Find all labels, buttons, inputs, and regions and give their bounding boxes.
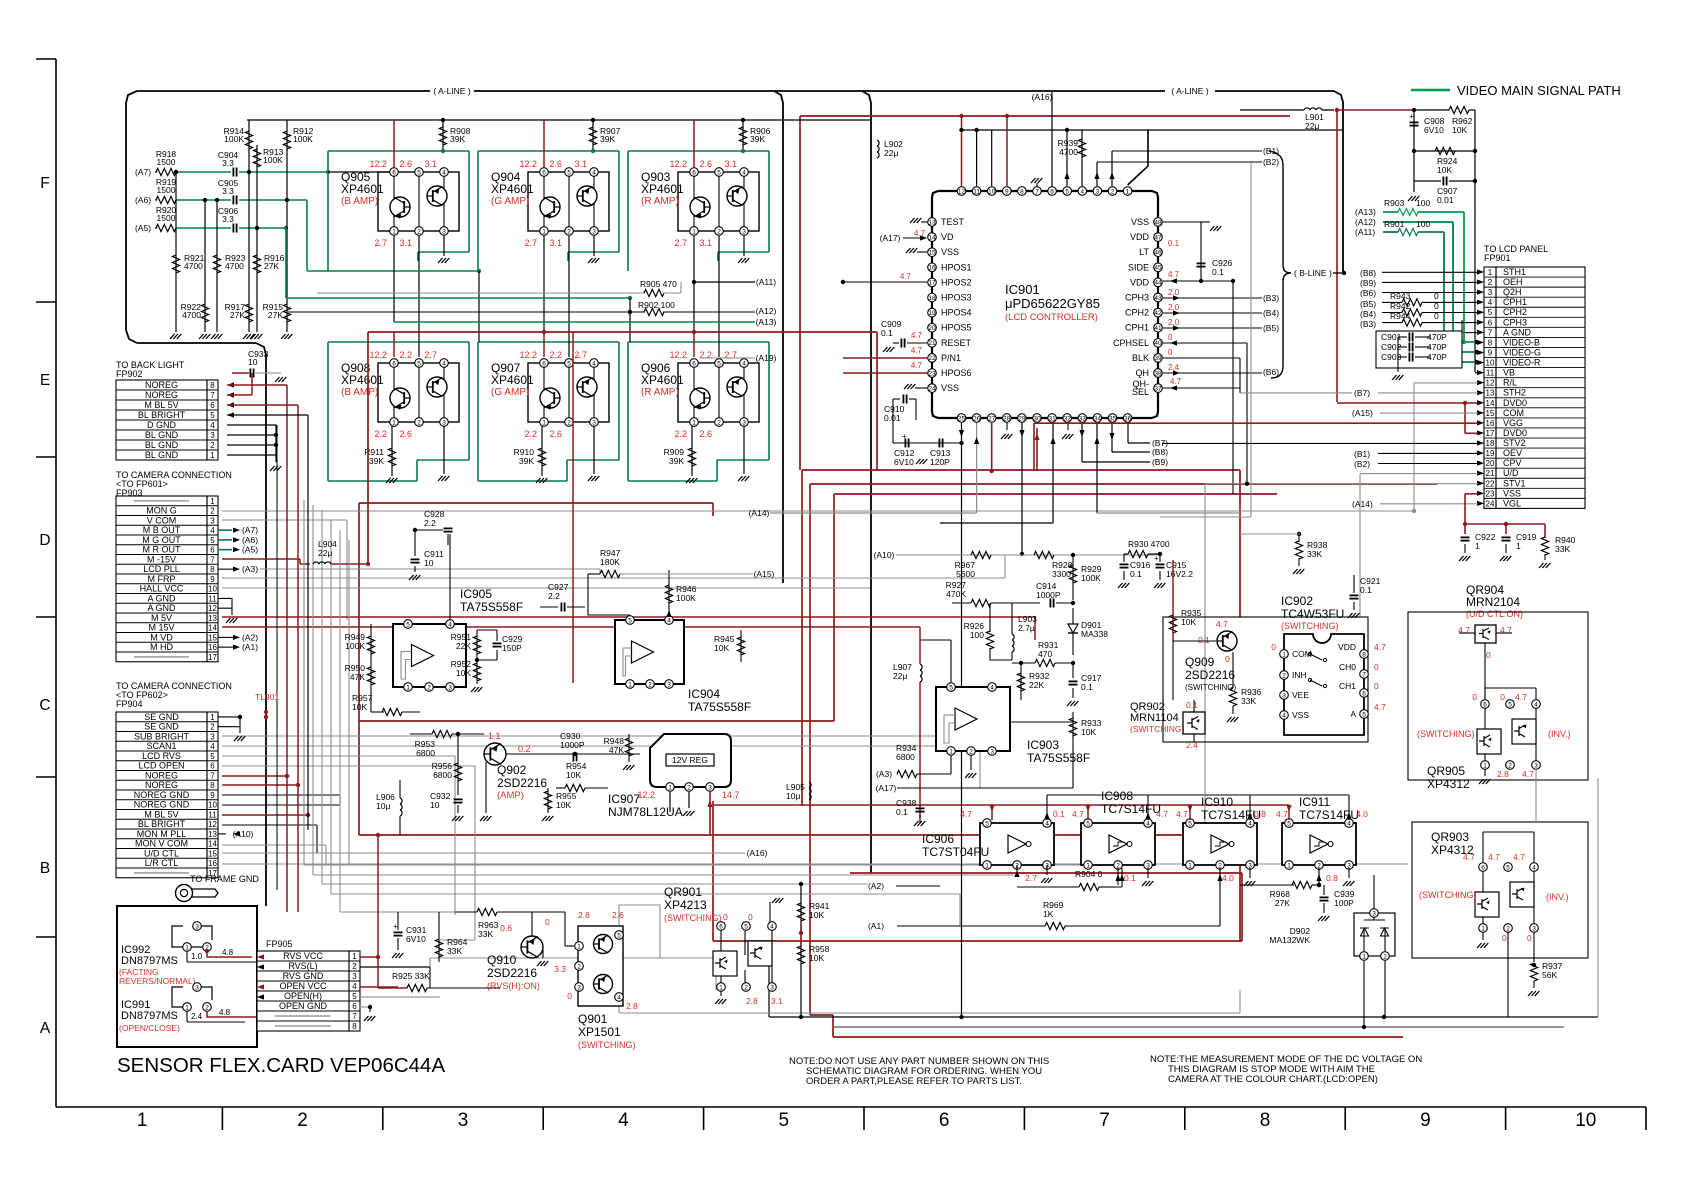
svg-text:VSS: VSS [941,247,959,257]
svg-text:0.1: 0.1 [1186,700,1198,710]
svg-text:BL GND: BL GND [145,430,179,440]
amp block Q905 inner outline [378,172,459,231]
svg-text:0.01: 0.01 [884,413,901,423]
svg-text:M R OUT: M R OUT [143,545,181,555]
svg-text:R904 0: R904 0 [1075,869,1103,879]
svg-text:(G AMP): (G AMP) [491,196,529,207]
svg-text:5: 5 [1506,864,1510,871]
svg-text:NJM78L12UA: NJM78L12UA [608,805,683,819]
svg-text:(U/D CTL:ON): (U/D CTL:ON) [1466,609,1523,619]
resistor R916 27K [256,228,258,332]
gnd below row1 pin4 [443,236,445,256]
svg-text:E: E [40,372,50,389]
svg-text:M BL 5V: M BL 5V [144,400,178,410]
svg-text:(A16): (A16) [1032,92,1053,102]
svg-text:6: 6 [1481,864,1485,871]
svg-text:22K: 22K [456,641,471,651]
svg-text:8: 8 [352,1022,357,1031]
svg-text:RESET: RESET [941,338,972,348]
svg-text:22: 22 [928,355,936,362]
svg-text:6: 6 [939,1110,950,1131]
sensor flex card box [117,906,257,1047]
capacitors C912 C913 [893,442,962,444]
svg-text:27K: 27K [1275,898,1290,908]
svg-text:(B AMP): (B AMP) [341,387,378,398]
svg-text:22K: 22K [1029,680,1044,690]
wire FP904 SCAN1 row [222,745,980,747]
svg-text:10K: 10K [1181,617,1196,627]
resistor R917 27K [248,172,250,332]
resistor R913 100K [256,145,258,228]
svg-text:R901: R901 [1384,219,1405,229]
box around QR904 QR905 [1408,612,1588,780]
svg-text:MA338: MA338 [1081,629,1108,639]
svg-text:XP4312: XP4312 [1427,777,1470,791]
svg-text:16: 16 [928,265,936,272]
svg-text:13: 13 [208,830,217,839]
svg-text:3.1: 3.1 [771,996,783,1006]
svg-text:0.8: 0.8 [1254,809,1266,819]
svg-text:13: 13 [1486,389,1495,398]
svg-text:(LCD CONTROLLER): (LCD CONTROLLER) [1005,312,1098,323]
wire to A11 from Q903 [693,236,695,282]
svg-text:6: 6 [392,169,396,176]
svg-text:2: 2 [205,1004,209,1011]
legend VIDEO MAIN SIGNAL PATH [1411,89,1450,92]
svg-text:0.1: 0.1 [1360,585,1372,595]
svg-text:1K: 1K [1043,909,1054,919]
QH-SEL wire [1163,387,1240,389]
svg-text:2: 2 [1506,925,1510,932]
svg-text:4.7: 4.7 [960,809,972,819]
svg-text:DN8797MS: DN8797MS [121,955,178,967]
svg-text:2SD2216: 2SD2216 [1185,668,1235,682]
red wire VSS row23 [1465,493,1478,495]
resistor R955 10K [547,788,549,813]
bus red right verticals [1239,470,1241,617]
svg-text:14: 14 [1486,399,1495,408]
svg-text:3.3: 3.3 [554,964,566,974]
red vertical x573 [572,332,574,683]
resistor R933 10K [1072,712,1074,742]
svg-text:12.2: 12.2 [369,350,387,360]
svg-text:IC907: IC907 [608,792,640,806]
svg-text:C: C [39,697,50,714]
resistor R938 33K [1297,532,1301,536]
svg-text:39K: 39K [600,134,615,144]
svg-text:(A6): (A6) [242,535,258,545]
svg-text:10K: 10K [456,668,471,678]
red wire from L901 to C908 [1337,109,1414,111]
svg-text:R903: R903 [1384,198,1405,208]
svg-text:M BL 5V: M BL 5V [144,809,178,819]
svg-text:RVS GND: RVS GND [283,971,324,981]
svg-text:VSS: VSS [1292,710,1309,720]
red wire VGG row16 [1034,422,1478,424]
svg-text:(A17): (A17) [876,783,897,793]
svg-text:(B3): (B3) [1360,319,1376,329]
svg-text:M HD: M HD [150,642,173,652]
svg-text:2.7μ: 2.7μ [1018,623,1035,633]
svg-text:2.6: 2.6 [699,429,712,439]
svg-text:+: + [902,432,907,441]
svg-text:12.2: 12.2 [669,350,687,360]
svg-text:10K: 10K [556,800,571,810]
svg-text:4.7: 4.7 [1488,852,1500,862]
svg-text:P/N1: P/N1 [941,353,961,363]
svg-text:FP901: FP901 [1484,253,1511,263]
svg-text:(A3): (A3) [876,769,892,779]
svg-text:39K: 39K [369,456,384,466]
mid horizontal gray wires lower [304,864,1098,866]
svg-text:TA75S558F: TA75S558F [460,600,523,614]
svg-text:B: B [40,860,50,877]
svg-text:4.7: 4.7 [1522,769,1534,779]
resistor R948 47K [628,734,630,762]
svg-text:IC903: IC903 [1027,738,1059,752]
svg-text:HPOS2: HPOS2 [941,277,972,287]
svg-text:21: 21 [1486,469,1495,478]
svg-text:1: 1 [692,419,696,426]
svg-text:TEST: TEST [941,217,965,227]
svg-text:INH: INH [1292,670,1307,680]
svg-text:(A2): (A2) [868,881,884,891]
transistor Q910 cluster C931 [394,931,403,933]
svg-text:3: 3 [742,419,746,426]
svg-text:(SWITCHING): (SWITCHING) [578,1040,636,1050]
svg-text:3300: 3300 [1052,569,1071,579]
bus red channel y470 [802,469,1240,471]
svg-text:4.7: 4.7 [1156,809,1168,819]
svg-text:12: 12 [958,188,966,195]
svg-text:16: 16 [1486,419,1495,428]
svg-text:FP902: FP902 [116,369,143,379]
svg-text:8: 8 [210,381,215,390]
svg-text:10: 10 [988,188,996,195]
svg-text:6: 6 [1488,318,1493,327]
svg-text:(R AMP): (R AMP) [641,196,679,207]
svg-text:2.4: 2.4 [1168,363,1180,372]
svg-text:5600: 5600 [956,569,975,579]
svg-text:(A3): (A3) [242,564,258,574]
resistor R936 33K [1232,652,1234,688]
resistor R908 39K [442,120,444,151]
svg-text:M VD: M VD [150,632,173,642]
svg-text:0: 0 [723,912,728,922]
svg-text:3.1: 3.1 [724,159,737,169]
svg-text:4: 4 [1080,188,1084,195]
border frame bottom ruler [56,1106,1646,1108]
svg-text:1: 1 [392,228,396,235]
svg-text:(A14): (A14) [749,508,770,518]
svg-text:5: 5 [567,360,571,367]
svg-text:0.1: 0.1 [1124,873,1136,883]
svg-text:5: 5 [417,169,421,176]
svg-text:4: 4 [1534,701,1538,708]
svg-text:1: 1 [1287,862,1291,869]
svg-text:(A13): (A13) [1355,207,1376,217]
amp block Q906 inner outline [678,363,759,422]
svg-text:STH1: STH1 [1503,267,1526,277]
svg-text:R902 100: R902 100 [638,300,675,310]
red feed wires row2 pin6 [393,332,395,357]
svg-text:(B2): (B2) [1354,459,1370,469]
svg-text:32: 32 [1064,415,1072,422]
wire IC992 pin2 red to FP905 [207,951,252,957]
svg-text:2.4: 2.4 [191,1012,203,1021]
svg-text:3: 3 [210,732,215,741]
svg-text:2.6: 2.6 [699,159,712,169]
svg-text:24: 24 [928,385,936,392]
svg-text:+: + [393,922,398,931]
svg-text:5: 5 [417,360,421,367]
capacitor C904 3.3 [176,171,231,173]
svg-text:5: 5 [406,621,410,628]
svg-text:(A12): (A12) [1355,217,1376,227]
wire FP904 NOREG rows red [222,775,287,777]
svg-text:4: 4 [617,994,621,1001]
svg-text:IC911: IC911 [1299,795,1330,809]
transistor pair inside Q906 [690,388,710,408]
svg-text:6: 6 [210,546,215,555]
svg-text:QR901: QR901 [664,885,702,899]
svg-text:M 5V: M 5V [151,613,172,623]
svg-text:TC7ST04FU: TC7ST04FU [922,845,989,859]
wire FP904 SUB BRIGHT row [222,735,1000,737]
inverter pin wires [1087,805,1089,820]
svg-text:0: 0 [1434,291,1439,301]
svg-text:(B4): (B4) [1263,308,1279,318]
svg-text:22μ: 22μ [318,548,332,558]
svg-text:OEV: OEV [1503,448,1522,458]
svg-text:NOREG: NOREG [145,770,178,780]
svg-text:6: 6 [352,1002,357,1011]
svg-text:VDD: VDD [1130,277,1150,287]
svg-text:HPOS1: HPOS1 [941,262,972,272]
svg-text:IC904: IC904 [688,687,720,701]
FP903 arrows and brackets [218,529,232,531]
svg-text:BL BRIGHT: BL BRIGHT [138,819,186,829]
svg-text:3: 3 [442,228,446,235]
svg-text:(B2): (B2) [1263,157,1279,167]
bus black top IC901 [961,129,1342,131]
svg-text:7: 7 [210,555,215,564]
capacitor C916 0.1 [1124,553,1128,555]
CPHSEL BLK wires [1163,342,1247,344]
svg-text:1: 1 [692,228,696,235]
svg-text:35: 35 [1109,415,1117,422]
svg-text:3.3: 3.3 [222,186,234,196]
wire FP904 L/R CTL long row [222,863,1408,865]
svg-text:M G OUT: M G OUT [142,535,181,545]
resistor R937 56K [1533,932,1535,962]
svg-text:U/D CTL: U/D CTL [144,848,179,858]
svg-text:2: 2 [1488,278,1493,287]
svg-text:30: 30 [1033,415,1041,422]
svg-text:CPH3: CPH3 [1125,293,1149,303]
svg-text:0: 0 [1374,681,1379,691]
amp block Q904 inner outline [528,172,609,231]
svg-text:0: 0 [1225,654,1230,664]
svg-text:D: D [39,532,50,549]
svg-text:CPHSEL: CPHSEL [1113,338,1149,348]
wire A-LINE inner verticals [774,91,783,583]
black pin1 columns to red bus [543,236,545,332]
svg-text:1: 1 [137,1110,148,1131]
svg-text:34: 34 [1094,415,1102,422]
svg-text:2.7: 2.7 [574,350,587,360]
svg-text:VSS: VSS [1131,217,1149,227]
bus red mid left loop [359,502,713,504]
svg-text:2.8: 2.8 [626,1001,638,1011]
svg-text:TC7S14FU: TC7S14FU [1201,808,1261,822]
svg-text:OEH: OEH [1503,277,1523,287]
resistor R932 22K [1020,663,1022,700]
svg-text:2.8: 2.8 [746,996,758,1006]
svg-text:0.6: 0.6 [500,923,512,933]
svg-text:STV2: STV2 [1503,438,1526,448]
svg-text:100K: 100K [293,134,313,144]
svg-text:10: 10 [248,357,258,367]
svg-text:3: 3 [770,984,774,991]
amp block Q908 green signal path box [327,342,329,481]
wire FP904 BL BRIGHT row [222,824,317,826]
svg-text:2: 2 [717,228,721,235]
svg-text:150P: 150P [502,643,522,653]
capacitor C926 0.1 [1197,262,1206,264]
svg-text:1500: 1500 [157,157,176,167]
svg-text:14: 14 [208,624,217,633]
svg-text:3: 3 [458,1110,469,1131]
svg-text:2SD2216: 2SD2216 [487,966,537,980]
svg-text:SE GND: SE GND [144,722,179,732]
resistor R951 22K capacitor C929 150P [476,630,478,660]
amp block Q907 inner outline [528,363,609,422]
svg-text:3: 3 [1096,188,1100,195]
svg-text:2: 2 [417,228,421,235]
wire FP904 M BL 5V red [222,814,308,816]
row2 output resistors R911 R910 R909 39K [391,426,393,476]
resistor R953 6800 [410,733,432,735]
svg-text:DVD0: DVD0 [1503,398,1527,408]
black feed bus y795 for inverter pin4 [1047,794,1349,796]
svg-text:SENSOR FLEX.CARD VEP06C44A: SENSOR FLEX.CARD VEP06C44A [117,1054,445,1077]
svg-text:(B5): (B5) [1263,323,1279,333]
svg-text:(B9): (B9) [1360,278,1376,288]
FP901 wires rows 11-24 [1475,372,1478,374]
wire VDD44 [1163,280,1233,282]
svg-text:0.01: 0.01 [1437,195,1454,205]
svg-text:28: 28 [1003,415,1011,422]
svg-text:6: 6 [692,169,696,176]
svg-text:3.1: 3.1 [399,238,412,248]
svg-text:5: 5 [1362,711,1366,718]
svg-text:2: 2 [567,419,571,426]
svg-text:4.7: 4.7 [1170,377,1182,386]
svg-text:10K: 10K [1437,165,1452,175]
svg-text:3: 3 [442,419,446,426]
svg-text:2.7: 2.7 [1025,873,1037,883]
svg-text:3.1: 3.1 [574,159,587,169]
svg-text:(B7): (B7) [1354,388,1370,398]
svg-text:1: 1 [210,497,215,506]
svg-text:6: 6 [1050,188,1054,195]
bus red channel y494 [834,493,1277,495]
svg-text:1: 1 [985,862,989,869]
svg-text:9: 9 [210,791,215,800]
svg-text:4: 4 [352,982,357,991]
svg-text:CPH2: CPH2 [1125,308,1149,318]
IC901 right pin externals [1163,221,1201,223]
svg-text:100K: 100K [224,134,244,144]
svg-text:5: 5 [567,169,571,176]
transistor pair inside Q903 [690,197,710,217]
svg-text:DN8797MS: DN8797MS [121,1010,178,1022]
svg-text:0.2: 0.2 [518,744,531,754]
svg-text:(SWITCHING): (SWITCHING) [1419,890,1477,900]
svg-text:2: 2 [969,748,973,755]
wire FP904 NOREG GND rows [222,794,340,796]
resistor R929 100K [1072,555,1074,600]
svg-text:VGG: VGG [1503,418,1523,428]
svg-text:0: 0 [1472,692,1477,702]
svg-text:HALL VCC: HALL VCC [140,584,184,594]
svg-text:MRN1104: MRN1104 [1130,712,1179,724]
wire IC991 pin2 red to FP905 [207,987,297,1017]
resistor R921 4700 [175,172,177,332]
svg-text:R942: R942 [1390,301,1411,311]
svg-text:5: 5 [628,617,632,624]
svg-text:3: 3 [592,228,596,235]
svg-text:OPEN GND: OPEN GND [279,1001,328,1011]
svg-text:36: 36 [1124,415,1132,422]
svg-text:VIDEO-R: VIDEO-R [1503,358,1541,368]
svg-text:0: 0 [748,912,753,922]
svg-text:21: 21 [928,340,936,347]
svg-text:R943: R943 [1390,291,1411,301]
svg-text:16V2.2: 16V2.2 [1166,569,1193,579]
svg-text:38: 38 [1154,370,1162,377]
FP904 gnd rows 1 2 [218,717,240,727]
svg-text:2: 2 [744,984,748,991]
svg-text:15: 15 [208,633,217,642]
red vertical feed x378 [377,835,379,988]
svg-text:CPH3: CPH3 [1503,317,1527,327]
black pin columns row1 to row2 [418,236,420,357]
resistor R935 10K [1172,560,1174,641]
svg-text:3: 3 [195,984,199,991]
svg-text:25: 25 [958,415,966,422]
svg-text:COM: COM [1503,408,1524,418]
svg-text:4700: 4700 [184,261,203,271]
QR903 pin top wires [1482,832,1484,862]
IC901 left pins 13..24 with labels [928,218,937,227]
svg-text:D GND: D GND [147,420,177,430]
svg-text:6V10: 6V10 [406,934,426,944]
transistor pair inside Q904 [540,197,560,217]
capacitor C907 0.01 [1413,151,1415,192]
svg-text:5: 5 [210,752,215,761]
svg-text:4.7: 4.7 [1072,809,1084,819]
svg-text:TA75S558F: TA75S558F [688,700,751,714]
svg-text:OPEN(H): OPEN(H) [284,991,322,1001]
amp block Q906 green signal path box [627,342,629,481]
svg-text:(SWITCHING): (SWITCHING) [1185,683,1236,692]
svg-text:2: 2 [1383,953,1387,960]
svg-text:4.7: 4.7 [1276,809,1288,819]
svg-text:(A15): (A15) [754,569,775,579]
resistor R939 4700 [1081,130,1083,186]
